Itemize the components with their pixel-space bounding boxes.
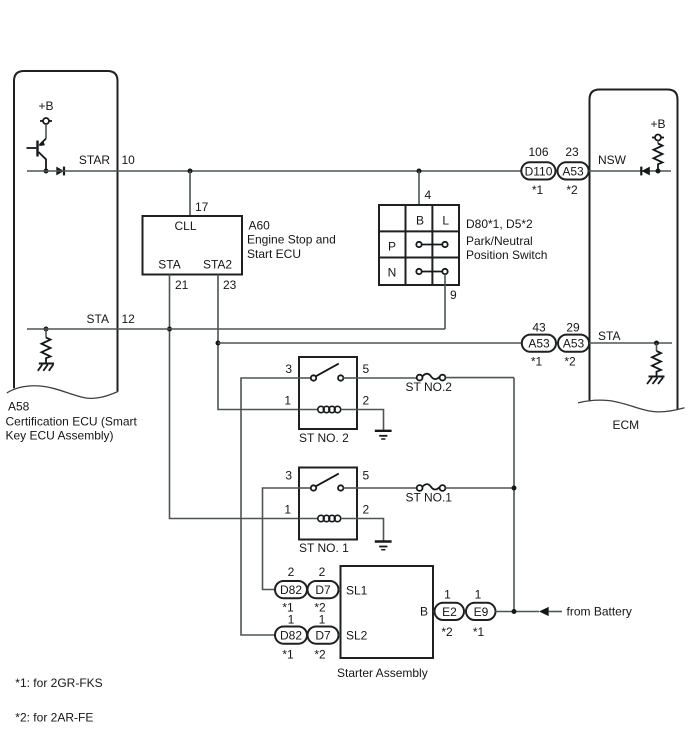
diode D (A58 STAR output) bbox=[56, 167, 64, 176]
wire ST NO.2 pin 5 to fuse bbox=[357, 377, 417, 379]
svg-text:Key ECU Assembly): Key ECU Assembly) bbox=[6, 429, 114, 443]
wire starter B to E2 connector bbox=[433, 611, 435, 613]
svg-text:9: 9 bbox=[450, 288, 457, 302]
svg-text:3: 3 bbox=[285, 362, 292, 376]
node: NSW pull-up junction bbox=[656, 169, 661, 174]
connector A53 pin 29 (*2) on ECM STA bbox=[558, 321, 589, 369]
svg-text:N: N bbox=[388, 266, 397, 280]
svg-text:L: L bbox=[442, 214, 449, 228]
svg-text:Position Switch: Position Switch bbox=[466, 248, 547, 262]
svg-text:SL2: SL2 bbox=[346, 629, 368, 643]
ECU block A58 outline bbox=[7, 71, 118, 398]
svg-text:1: 1 bbox=[475, 588, 482, 602]
svg-text:*2: *2 bbox=[314, 648, 326, 662]
wire A60 STA pin 21 down to ST NO.1 relay pin 1 bbox=[170, 275, 300, 519]
wire D7 to starter SL2 bbox=[339, 634, 341, 636]
ground (A58 chassis ground) bbox=[38, 364, 54, 371]
resistor R (ECM NSW pull-up) bbox=[654, 141, 663, 172]
svg-text:2: 2 bbox=[363, 394, 370, 408]
label A58 Certification ECU (Smart Key ECU Assembly) bbox=[6, 400, 138, 443]
svg-text:1: 1 bbox=[284, 394, 291, 408]
transistor Q1 (A58) bbox=[27, 124, 47, 171]
pin label STA and pin number 12 (A58) bbox=[87, 312, 136, 326]
connector E2 pin 1 (*2) on starter B bbox=[435, 588, 465, 640]
svg-text:D7: D7 bbox=[315, 583, 331, 597]
svg-text:12: 12 bbox=[122, 312, 136, 326]
ground (ECM chassis ground) bbox=[647, 377, 665, 385]
svg-text:21: 21 bbox=[175, 278, 189, 292]
svg-text:*2: for 2AR-FE: *2: for 2AR-FE bbox=[15, 711, 93, 725]
resistor R (ECM STA pull-down) bbox=[652, 343, 661, 376]
wire ST NO.1 pin 5 to fuse bbox=[357, 487, 417, 489]
svg-text:STA: STA bbox=[158, 258, 180, 272]
connector D82 pin 2 (*1) on SL1 bbox=[275, 565, 307, 615]
connector E9 pin 1 (*1) on starter B bbox=[466, 588, 496, 640]
wire CLL (STAR wire to A60 pin 17) bbox=[189, 171, 191, 216]
wire ST NO.2 pin 2 to ground bbox=[357, 410, 384, 430]
svg-text:Starter Assembly: Starter Assembly bbox=[337, 666, 428, 680]
node: battery feed junction bbox=[512, 609, 517, 614]
node: park/neutral switch branch on STAR wire bbox=[417, 169, 422, 174]
svg-text:*1: *1 bbox=[282, 648, 294, 662]
wire A60 STA2 pin 23 down to ST NO.2 relay pin 1 bbox=[218, 275, 299, 410]
svg-text:43: 43 bbox=[532, 321, 546, 335]
wire ST NO.2 pin 3 to SL2 connectors bbox=[241, 378, 299, 635]
svg-text:106: 106 bbox=[528, 145, 548, 159]
svg-text:1: 1 bbox=[444, 588, 451, 602]
svg-text:Start ECU: Start ECU bbox=[247, 247, 301, 261]
connector D7 pin 2 (*2) on SL1 bbox=[308, 565, 339, 615]
connector D82 pin 1 (*1) on SL2 bbox=[275, 613, 307, 662]
svg-text:Engine Stop and: Engine Stop and bbox=[247, 233, 336, 247]
fuse ST NO.2 bbox=[406, 374, 453, 394]
node: ECM STA resistor junction bbox=[654, 341, 659, 346]
svg-text:SL1: SL1 bbox=[346, 584, 368, 598]
svg-text:D110: D110 bbox=[525, 164, 553, 178]
svg-text:P: P bbox=[388, 240, 396, 254]
svg-text:*1: *1 bbox=[473, 625, 485, 639]
node: CLL branch on STAR wire bbox=[188, 169, 193, 174]
svg-text:2: 2 bbox=[288, 565, 295, 579]
svg-text:ECM: ECM bbox=[613, 418, 640, 432]
connector A53 pin 23 (*2) bbox=[558, 145, 589, 197]
wire park/neutral switch pin 9 to STA net bbox=[444, 274, 446, 329]
wire E9 to battery bus bbox=[496, 611, 540, 613]
svg-text:5: 5 bbox=[363, 362, 370, 376]
svg-text:29: 29 bbox=[566, 321, 580, 335]
svg-text:*2: *2 bbox=[441, 625, 453, 639]
svg-text:D82: D82 bbox=[280, 583, 302, 597]
ground (ST NO.2 relay coil) bbox=[375, 431, 392, 439]
svg-text:A60: A60 bbox=[249, 219, 271, 233]
relay ST NO.1 box bbox=[299, 468, 357, 540]
svg-text:Certification ECU (Smart: Certification ECU (Smart bbox=[6, 415, 138, 429]
wire fuse ST NO.2 to battery bus bbox=[445, 377, 514, 379]
wire D7 to starter SL1 bbox=[339, 589, 341, 591]
svg-text:E2: E2 bbox=[442, 605, 457, 619]
svg-text:*2: *2 bbox=[566, 183, 578, 197]
svg-text:+B: +B bbox=[651, 117, 666, 131]
node: A60 STA wire joins STA net bbox=[167, 327, 172, 332]
svg-text:4: 4 bbox=[425, 188, 432, 202]
svg-text:STAR: STAR bbox=[79, 153, 110, 167]
svg-text:*1: for 2GR-FKS: *1: for 2GR-FKS bbox=[15, 676, 102, 690]
svg-text:10: 10 bbox=[122, 153, 136, 167]
power terminal +B (A58) bbox=[39, 99, 54, 124]
arrow from Battery bbox=[539, 607, 562, 616]
resistor R (A58 STA pull-down) bbox=[42, 327, 51, 363]
ECU block A60 Engine Stop and Start ECU bbox=[143, 216, 243, 275]
svg-text:B: B bbox=[416, 214, 424, 228]
wire ST NO.1 pin 3 to SL1 connectors bbox=[263, 488, 300, 590]
node: transistor emitter to STAR wire bbox=[44, 169, 49, 174]
fuse ST NO.1 bbox=[406, 484, 453, 504]
starter assembly box bbox=[341, 566, 434, 658]
svg-text:STA: STA bbox=[87, 312, 109, 326]
svg-text:*1: *1 bbox=[531, 355, 543, 369]
svg-text:5: 5 bbox=[363, 469, 370, 483]
svg-text:D7: D7 bbox=[315, 629, 331, 643]
svg-text:NSW: NSW bbox=[598, 153, 627, 167]
wire fuse ST NO.1 to battery bus bbox=[445, 487, 514, 489]
svg-text:ST NO. 1: ST NO. 1 bbox=[299, 541, 349, 555]
svg-text:+B: +B bbox=[39, 99, 54, 113]
node: STA2 branch to ECM bbox=[216, 341, 221, 346]
pin label STAR and pin number 10 bbox=[79, 153, 135, 167]
svg-text:23: 23 bbox=[223, 278, 237, 292]
svg-text:ST NO.2: ST NO.2 bbox=[406, 380, 453, 394]
switch contact N row bbox=[416, 269, 447, 274]
diode D (ECM NSW input) bbox=[641, 167, 650, 176]
wire battery bus (right vertical) bbox=[513, 378, 515, 612]
connector A53 pin 43 (*1) on ECM STA bbox=[522, 321, 556, 369]
svg-text:D82: D82 bbox=[280, 629, 302, 643]
svg-text:2: 2 bbox=[319, 565, 326, 579]
svg-text:from Battery: from Battery bbox=[567, 605, 632, 619]
label D80*1, D5*2 Park/Neutral Position Switch bbox=[466, 217, 547, 262]
power terminal +B (ECM) bbox=[651, 117, 666, 141]
svg-text:A53: A53 bbox=[562, 164, 584, 178]
wire STA2 net to ECM STA connector bbox=[218, 342, 522, 344]
wire ST NO.1 pin 2 to ground bbox=[357, 519, 384, 541]
label A60 Engine Stop and Start ECU bbox=[247, 219, 336, 262]
svg-text:1: 1 bbox=[288, 613, 295, 627]
relay ST NO.2 switch contacts pins 3-5 bbox=[299, 364, 357, 381]
svg-text:B: B bbox=[420, 605, 428, 619]
svg-text:ST NO. 2: ST NO. 2 bbox=[299, 431, 349, 445]
svg-text:A53: A53 bbox=[528, 337, 550, 351]
svg-text:A58: A58 bbox=[8, 400, 30, 414]
relay ST NO.1 switch contacts pins 3-5 bbox=[299, 474, 357, 491]
svg-text:ST NO.1: ST NO.1 bbox=[406, 491, 453, 505]
connector D7 pin 1 (*2) on SL2 bbox=[308, 613, 339, 662]
ECU block ECM outline bbox=[578, 90, 685, 412]
ground (ST NO.1 relay coil) bbox=[375, 542, 392, 550]
wire park/neutral switch pin 4 to STAR wire bbox=[418, 171, 420, 205]
svg-text:D80*1, D5*2: D80*1, D5*2 bbox=[466, 217, 533, 231]
svg-text:STA: STA bbox=[598, 329, 620, 343]
relay ST NO.2 box bbox=[299, 357, 357, 429]
wire STA inside ECM bbox=[589, 342, 672, 344]
svg-text:1: 1 bbox=[319, 613, 326, 627]
node: ST NO.1 fuse joins battery bus bbox=[512, 486, 517, 491]
svg-text:23: 23 bbox=[565, 145, 579, 159]
connector D110 pin 106 (*1) bbox=[521, 145, 555, 197]
park/neutral position switch D80*1 D5*2 grid bbox=[379, 205, 459, 285]
wire NSW inside ECM bbox=[589, 170, 671, 172]
svg-text:17: 17 bbox=[195, 200, 209, 214]
svg-text:A53: A53 bbox=[563, 337, 585, 351]
wire STAR/NSW net (A58 pin 10 to ECM NSW) bbox=[27, 170, 521, 172]
svg-text:3: 3 bbox=[285, 469, 292, 483]
relay ST NO.1 coil pins 1-2 bbox=[299, 515, 357, 521]
svg-text:CLL: CLL bbox=[174, 219, 196, 233]
svg-text:*1: *1 bbox=[532, 183, 544, 197]
switch contact P row bbox=[416, 242, 447, 247]
svg-text:1: 1 bbox=[284, 503, 291, 517]
wire STA net (A58 pin 12 to park/neutral switch pin 9) bbox=[27, 328, 445, 330]
relay ST NO.2 coil pins 1-2 bbox=[299, 406, 357, 412]
svg-text:STA2: STA2 bbox=[203, 258, 232, 272]
svg-text:E9: E9 bbox=[474, 605, 489, 619]
svg-text:*2: *2 bbox=[564, 355, 576, 369]
svg-text:2: 2 bbox=[363, 503, 370, 517]
svg-text:Park/Neutral: Park/Neutral bbox=[466, 234, 533, 248]
